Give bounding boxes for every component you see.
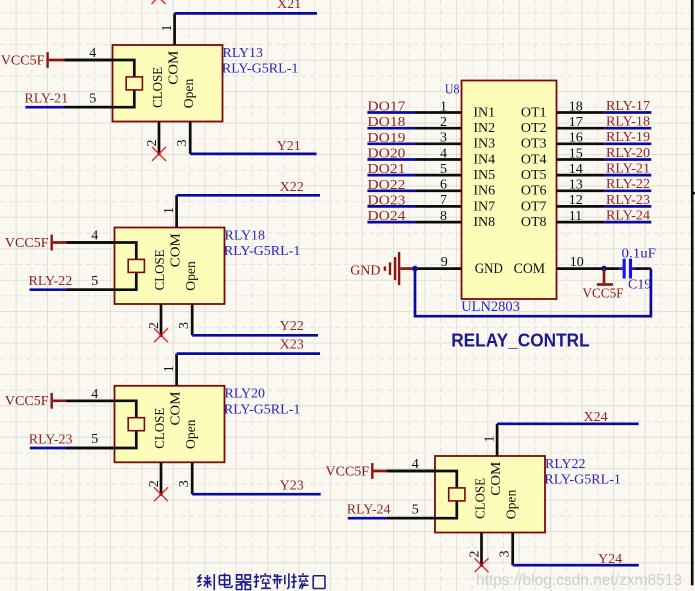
svg-text:DO19: DO19: [367, 131, 405, 146]
svg-text:CLOSE: CLOSE: [152, 408, 167, 449]
svg-text:CLOSE: CLOSE: [152, 249, 167, 290]
svg-text:10: 10: [570, 255, 584, 270]
svg-text:COM: COM: [168, 392, 183, 426]
svg-text:OT1: OT1: [521, 105, 547, 120]
svg-text:IN8: IN8: [473, 215, 495, 230]
svg-text:COM: COM: [514, 261, 546, 277]
svg-text:5: 5: [412, 502, 419, 517]
svg-text:VCC5F: VCC5F: [583, 286, 624, 301]
svg-text:DO17: DO17: [367, 100, 405, 115]
svg-text:RLY22: RLY22: [545, 457, 586, 472]
svg-text:DO22: DO22: [367, 178, 405, 193]
svg-text:5: 5: [440, 162, 447, 177]
svg-text:DO20: DO20: [367, 147, 405, 162]
svg-text:RLY13: RLY13: [223, 46, 264, 61]
svg-text:RLY-20: RLY-20: [606, 146, 650, 161]
svg-text:0.1uF: 0.1uF: [622, 247, 657, 262]
svg-text:COM: COM: [168, 233, 183, 267]
svg-text:DO23: DO23: [367, 193, 405, 208]
svg-text:2: 2: [147, 322, 162, 329]
svg-text:OT8: OT8: [521, 215, 547, 230]
svg-text:X22: X22: [280, 180, 304, 195]
svg-text:https://blog.csdn.net/zxm8513: https://blog.csdn.net/zxm8513: [476, 572, 682, 589]
svg-text:2: 2: [468, 551, 483, 558]
svg-text:15: 15: [569, 146, 583, 161]
svg-text:CLOSE: CLOSE: [150, 67, 165, 108]
svg-text:IN6: IN6: [473, 184, 495, 199]
svg-text:VCC5F: VCC5F: [326, 464, 370, 479]
svg-text:DO24: DO24: [367, 209, 405, 224]
svg-text:RLY-19: RLY-19: [606, 130, 650, 145]
svg-text:U8: U8: [445, 83, 460, 98]
svg-text:GND: GND: [350, 264, 380, 279]
svg-text:6: 6: [440, 178, 447, 193]
svg-text:3: 3: [177, 322, 192, 329]
svg-text:8: 8: [440, 209, 447, 224]
svg-text:Y24: Y24: [598, 552, 622, 567]
svg-text:2: 2: [145, 140, 160, 147]
svg-text:COM: COM: [488, 462, 503, 496]
svg-text:13: 13: [569, 178, 583, 193]
svg-text:RLY-17: RLY-17: [606, 99, 650, 114]
svg-text:12: 12: [569, 193, 583, 208]
svg-text:9: 9: [441, 255, 448, 270]
svg-text:RLY-G5RL-1: RLY-G5RL-1: [222, 62, 299, 77]
svg-text:14: 14: [569, 162, 583, 177]
svg-text:IN2: IN2: [473, 121, 495, 136]
svg-text:IN7: IN7: [473, 199, 495, 214]
svg-text:IN4: IN4: [473, 152, 495, 167]
svg-text:5: 5: [89, 91, 96, 106]
svg-text:RLY-G5RL-1: RLY-G5RL-1: [544, 473, 621, 488]
svg-text:C19: C19: [628, 278, 651, 293]
svg-text:DO21: DO21: [367, 162, 405, 177]
svg-text:RLY18: RLY18: [225, 228, 266, 243]
svg-text:RLY-22: RLY-22: [606, 177, 650, 192]
svg-text:3: 3: [440, 131, 447, 146]
svg-text:OT6: OT6: [521, 184, 547, 199]
svg-text:11: 11: [569, 209, 582, 224]
svg-text:RLY-23: RLY-23: [29, 432, 73, 447]
svg-text:17: 17: [569, 115, 583, 130]
svg-text:RLY-18: RLY-18: [606, 115, 650, 130]
svg-text:X24: X24: [584, 410, 608, 425]
svg-text:RLY-23: RLY-23: [606, 193, 650, 208]
svg-text:3: 3: [498, 551, 513, 558]
svg-text:IN3: IN3: [473, 137, 495, 152]
svg-text:5: 5: [91, 432, 98, 447]
svg-text:Y22: Y22: [280, 319, 304, 334]
svg-text:ULN2803: ULN2803: [461, 299, 520, 315]
svg-text:X21: X21: [277, 0, 301, 12]
svg-text:IN1: IN1: [473, 105, 495, 120]
svg-text:18: 18: [569, 99, 583, 114]
svg-text:OT2: OT2: [521, 121, 547, 136]
svg-text:RLY-G5RL-1: RLY-G5RL-1: [224, 402, 301, 417]
svg-text:DO18: DO18: [367, 115, 405, 130]
svg-text:VCC5F: VCC5F: [5, 236, 49, 251]
svg-text:RELAY_CONTRL: RELAY_CONTRL: [451, 329, 590, 350]
svg-text:OT5: OT5: [521, 168, 547, 183]
svg-text:1: 1: [162, 207, 177, 214]
svg-text:CLOSE: CLOSE: [472, 478, 487, 519]
svg-text:4: 4: [440, 146, 447, 161]
svg-text:1: 1: [162, 365, 177, 372]
svg-text:GND: GND: [475, 261, 503, 277]
svg-text:2: 2: [147, 480, 162, 487]
svg-text:Open: Open: [183, 261, 198, 291]
svg-text:3: 3: [175, 140, 190, 147]
svg-text:RLY20: RLY20: [225, 387, 266, 402]
svg-text:1: 1: [160, 25, 175, 32]
svg-text:Y21: Y21: [277, 139, 301, 154]
svg-text:16: 16: [569, 131, 583, 146]
svg-text:Y23: Y23: [280, 479, 304, 494]
svg-text:Open: Open: [181, 78, 196, 108]
svg-text:VCC5F: VCC5F: [5, 394, 49, 409]
svg-text:RLY-24: RLY-24: [347, 503, 391, 518]
svg-text:1: 1: [482, 436, 497, 443]
svg-text:Open: Open: [183, 419, 198, 449]
svg-text:COM: COM: [166, 51, 181, 85]
svg-text:X23: X23: [280, 338, 304, 353]
svg-text:2: 2: [440, 115, 447, 130]
svg-text:7: 7: [440, 193, 447, 208]
svg-text:3: 3: [177, 480, 192, 487]
svg-text:IN5: IN5: [473, 168, 495, 183]
svg-text:OT4: OT4: [521, 152, 547, 167]
svg-text:5: 5: [91, 274, 98, 289]
svg-text:RLY-24: RLY-24: [606, 209, 650, 224]
svg-text:RLY-21: RLY-21: [24, 92, 68, 107]
svg-text:OT3: OT3: [521, 137, 547, 152]
svg-text:RLY-21: RLY-21: [606, 162, 650, 177]
svg-text:Open: Open: [504, 489, 519, 519]
svg-text:RLY-22: RLY-22: [29, 274, 73, 289]
svg-text:OT7: OT7: [521, 199, 547, 214]
svg-text:1: 1: [440, 99, 447, 114]
svg-text:RLY-G5RL-1: RLY-G5RL-1: [224, 244, 301, 259]
svg-text:VCC5F: VCC5F: [1, 53, 45, 68]
